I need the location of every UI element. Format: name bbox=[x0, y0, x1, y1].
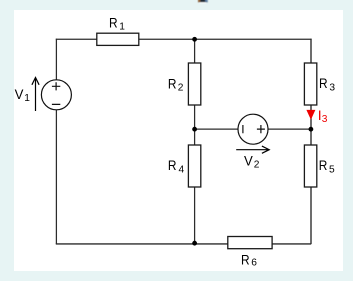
svg-text:V: V bbox=[15, 86, 24, 102]
svg-text:R: R bbox=[168, 75, 177, 91]
wire top bbox=[56, 38, 312, 40]
node dot middle (R2/R4/V2) bbox=[192, 127, 197, 132]
svg-text:2: 2 bbox=[178, 83, 184, 94]
wire left lower bbox=[55, 110, 57, 244]
arrow V2 bbox=[236, 146, 269, 153]
wire V2 horizontal bbox=[195, 128, 312, 130]
resistor R6 bbox=[228, 237, 272, 249]
svg-text:V: V bbox=[244, 153, 253, 169]
svg-text:R: R bbox=[109, 14, 118, 30]
wire bottom bbox=[56, 243, 311, 245]
wire left bbox=[55, 39, 57, 80]
svg-text:6: 6 bbox=[251, 257, 257, 268]
resistor R4 bbox=[188, 145, 200, 187]
resistor R5 bbox=[304, 145, 316, 187]
cropped artifact at top edge bbox=[198, 0, 207, 3]
svg-text:4: 4 bbox=[179, 165, 185, 176]
svg-text:3: 3 bbox=[322, 114, 328, 125]
resistor R2 bbox=[188, 63, 200, 105]
svg-text:R: R bbox=[319, 157, 328, 173]
svg-text:R: R bbox=[168, 157, 177, 173]
svg-text:R: R bbox=[319, 75, 328, 91]
svg-text:2: 2 bbox=[254, 160, 260, 171]
voltage source V1 bbox=[41, 80, 71, 110]
voltage source V2 bbox=[238, 114, 268, 144]
resistor R1 bbox=[97, 33, 139, 45]
node dot top (R2/top wire) bbox=[192, 37, 197, 42]
node dot right (R3/R5/V2) bbox=[309, 127, 314, 132]
node dot bottom (R4/bottom wire) bbox=[192, 241, 197, 246]
wire right bbox=[310, 39, 312, 244]
svg-text:3: 3 bbox=[329, 83, 335, 94]
svg-text:5: 5 bbox=[329, 165, 335, 176]
wire middle branch bbox=[194, 39, 196, 244]
svg-text:1: 1 bbox=[24, 93, 30, 104]
svg-text:1: 1 bbox=[119, 22, 125, 33]
svg-text:R: R bbox=[241, 251, 250, 267]
current arrow I3 bbox=[306, 110, 315, 120]
arrow V1 bbox=[32, 78, 39, 112]
resistor R3 bbox=[304, 63, 316, 105]
